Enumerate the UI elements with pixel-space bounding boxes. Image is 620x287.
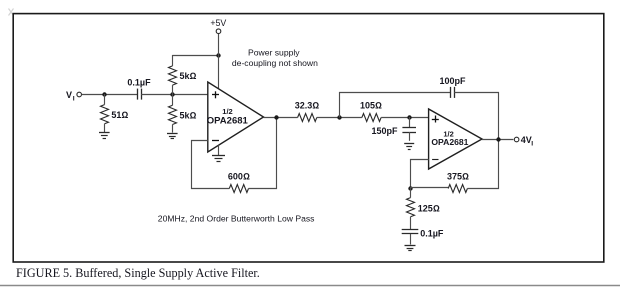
resistor 5kΩ upper: [169, 55, 177, 94]
svg-text:de-coupling not shown: de-coupling not shown: [232, 58, 318, 68]
wire +5V terminal down: [218, 34, 220, 55]
150pF value label: [371, 126, 398, 136]
svg-text:100pF: 100pF: [439, 76, 466, 86]
resistor 125Ω: [407, 188, 415, 230]
100pF value label: [439, 76, 466, 86]
+5V terminal: [216, 29, 221, 34]
wire input to cap: [82, 94, 138, 96]
wire 5k rail: [172, 55, 218, 57]
wire U1B inverting input: [411, 160, 429, 189]
svg-text:I: I: [531, 141, 533, 148]
svg-text:OPA2681: OPA2681: [207, 115, 249, 126]
0.1µF value label: [127, 78, 151, 88]
node B junction: [407, 115, 411, 119]
node VI input label: [66, 90, 75, 103]
svg-text:0.1µF: 0.1µF: [127, 78, 151, 88]
svg-text:Power supply: Power supply: [248, 48, 300, 58]
wire U1A inverting input feedback: [192, 141, 230, 189]
capacitor 0.1µF bottom: [402, 230, 419, 245]
svg-text:20MHz, 2nd Order Butterworth L: 20MHz, 2nd Order Butterworth Low Pass: [158, 213, 315, 223]
105Ω value label: [360, 100, 382, 110]
wire 32.3 to 105: [317, 117, 362, 119]
wire U1B output: [482, 139, 513, 141]
wire +5V to op-amp supply pin: [218, 55, 220, 90]
resistor 51Ω: [101, 94, 109, 132]
wire feedback 100pF: [340, 93, 451, 118]
resistor 32.3Ω: [298, 114, 317, 122]
wire 100pF to output node: [454, 93, 498, 140]
resistor 105Ω: [362, 114, 381, 122]
junction input/51: [102, 92, 106, 96]
junction +5V: [216, 53, 220, 57]
wire rail to 375: [410, 187, 448, 189]
junction gain network: [408, 186, 412, 190]
375Ω value label: [447, 171, 469, 181]
svg-text:600Ω: 600Ω: [228, 172, 250, 182]
svg-text:32.3Ω: 32.3Ω: [295, 100, 320, 110]
svg-text:V: V: [66, 90, 72, 100]
svg-text:+5V: +5V: [210, 18, 226, 28]
capacitor 0.1µF input: [138, 89, 142, 100]
svg-text:I: I: [73, 96, 75, 103]
input terminal: [77, 92, 82, 97]
wire cap to op-amp: [141, 94, 208, 96]
junction U1A output/feedback: [274, 115, 278, 119]
svg-text:375Ω: 375Ω: [447, 171, 469, 181]
svg-text:FIGURE 5. Buffered, Single Sup: FIGURE 5. Buffered, Single Supply Active…: [16, 266, 260, 280]
note power supply de-coupling: [232, 48, 318, 69]
wire 375Ω to output node: [467, 140, 498, 189]
ground 5kΩ lower: [167, 134, 178, 139]
svg-text:5kΩ: 5kΩ: [180, 111, 197, 121]
svg-text:105Ω: 105Ω: [360, 100, 382, 110]
figure caption: [16, 266, 260, 280]
svg-text:150pF: 150pF: [371, 126, 398, 136]
junction U1B output: [496, 137, 500, 141]
51Ω value label: [111, 110, 128, 120]
op-amp U1B minus pin: [432, 159, 438, 161]
op-amp U1A triangle: [208, 82, 264, 152]
op-amp U1B plus pin: [432, 116, 439, 123]
ground 51Ω: [99, 133, 110, 139]
ground 150pF: [404, 144, 414, 150]
32.3Ω value label: [295, 100, 320, 110]
capacitor 150pF: [402, 117, 416, 141]
op-amp U1A plus pin: [212, 91, 219, 98]
ground op-amp U1A supply: [212, 145, 225, 161]
op-amp U1B label 1/2 OPA2681: [431, 130, 468, 148]
wire U1A output: [264, 117, 298, 119]
600Ω value label: [228, 172, 250, 182]
junction bias node: [170, 92, 174, 96]
capacitor 100pF: [451, 87, 455, 98]
resistor 600Ω: [229, 185, 248, 193]
svg-text:0.1µF: 0.1µF: [420, 229, 444, 239]
node 4VI output label: [521, 135, 533, 148]
resistor 375Ω: [448, 185, 467, 193]
svg-text:125Ω: 125Ω: [418, 203, 440, 213]
svg-text:4V: 4V: [521, 135, 532, 145]
svg-text:5kΩ: 5kΩ: [180, 71, 197, 81]
0.1µF bottom value label: [420, 229, 444, 239]
page rule: [0, 285, 620, 287]
scan smudge artifact: [9, 9, 14, 16]
+5V net label: [210, 18, 226, 28]
wire 600Ω to output: [249, 118, 277, 189]
op-amp U1A label 1/2 OPA2681: [207, 107, 249, 127]
svg-text:OPA2681: OPA2681: [431, 137, 468, 147]
output terminal: [514, 137, 519, 142]
5kΩ lower value label: [180, 111, 197, 121]
wire 105 to op-amp U1B: [381, 117, 429, 119]
op-amp U1A minus pin: [212, 140, 219, 142]
125Ω value label: [418, 203, 440, 213]
node A junction: [337, 115, 341, 119]
op-amp U1B triangle: [429, 109, 482, 169]
svg-text:51Ω: 51Ω: [111, 110, 128, 120]
5kΩ upper value label: [180, 71, 197, 81]
resistor 5kΩ lower: [169, 94, 177, 133]
ground 0.1µF bottom: [405, 246, 416, 251]
note filter description: [158, 213, 315, 223]
